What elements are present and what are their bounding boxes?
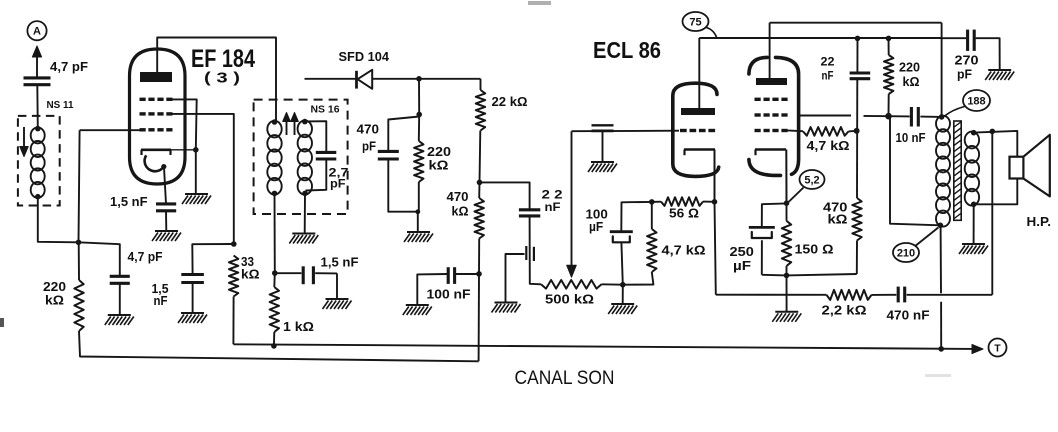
svg-text:5,2: 5,2 (804, 175, 819, 187)
svg-text:pF: pF (330, 179, 346, 191)
svg-text:188: 188 (967, 96, 985, 108)
svg-text:270: 270 (955, 54, 979, 68)
svg-text:470 nF: 470 nF (887, 309, 930, 323)
svg-text:kΩ: kΩ (429, 159, 449, 173)
svg-text:22 kΩ: 22 kΩ (492, 95, 528, 109)
svg-text:2 2: 2 2 (542, 190, 563, 202)
svg-text:150 Ω: 150 Ω (795, 243, 834, 257)
svg-text:75: 75 (689, 17, 701, 29)
svg-text:250: 250 (730, 245, 754, 259)
svg-text:4,7 kΩ: 4,7 kΩ (807, 139, 850, 153)
svg-text:NS 11: NS 11 (47, 100, 74, 111)
svg-text:56 Ω: 56 Ω (669, 207, 699, 221)
svg-text:kΩ: kΩ (903, 75, 920, 89)
svg-text:EF 184: EF 184 (191, 45, 255, 73)
svg-text:4,7 pF: 4,7 pF (128, 250, 163, 264)
svg-text:SFD 104: SFD 104 (339, 50, 390, 64)
svg-text:22: 22 (821, 57, 835, 69)
svg-text:1 kΩ: 1 kΩ (283, 320, 314, 334)
svg-text:4,7 pF: 4,7 pF (50, 60, 88, 74)
svg-text:nF: nF (822, 71, 834, 83)
svg-text:kΩ: kΩ (828, 213, 848, 227)
svg-text:µF: µF (589, 220, 604, 234)
svg-text:pF: pF (957, 68, 972, 82)
svg-text:nF: nF (154, 294, 168, 308)
svg-text:500 kΩ: 500 kΩ (545, 293, 594, 307)
svg-text:kΩ: kΩ (452, 205, 469, 219)
svg-text:H.P.: H.P. (1027, 215, 1052, 229)
svg-text:ECL 86: ECL 86 (593, 37, 661, 63)
svg-text:pF: pF (362, 140, 376, 154)
svg-text:( 3 ): ( 3 ) (204, 71, 240, 87)
svg-text:470: 470 (357, 123, 380, 137)
svg-text:A: A (33, 26, 41, 38)
svg-text:220: 220 (899, 61, 920, 75)
svg-text:1,5 nF: 1,5 nF (321, 256, 359, 270)
svg-text:µF: µF (733, 259, 751, 273)
svg-text:4,7 kΩ: 4,7 kΩ (662, 244, 706, 258)
svg-text:1,5 nF: 1,5 nF (110, 195, 148, 209)
svg-text:kΩ: kΩ (45, 294, 64, 308)
svg-text:kΩ: kΩ (241, 268, 260, 282)
svg-text:2,2 kΩ: 2,2 kΩ (822, 304, 867, 318)
svg-text:CANAL SON: CANAL SON (515, 368, 615, 389)
svg-text:220: 220 (43, 280, 66, 294)
svg-text:220: 220 (427, 145, 451, 159)
svg-text:10 nF: 10 nF (896, 131, 926, 145)
svg-text:T: T (994, 342, 1001, 354)
svg-text:NS 16: NS 16 (311, 105, 340, 116)
svg-text:470: 470 (447, 190, 469, 204)
svg-text:nF: nF (545, 202, 561, 214)
svg-text:210: 210 (897, 248, 915, 260)
svg-text:100 nF: 100 nF (427, 288, 471, 302)
